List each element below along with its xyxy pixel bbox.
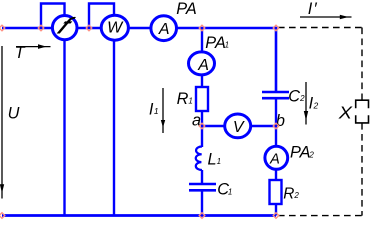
wire: right branch vertical (top corner down to C2) [275,27,278,91]
svg-text:A: A [269,151,280,167]
ammeter PA [151,16,177,41]
junction marker: bottom right branch [273,213,279,219]
junction marker: middle branch tap [199,25,205,31]
junction marker: top right corner [273,25,279,31]
wire: wattmeter down to bottom bus [113,39,115,216]
resistor R1 [196,87,208,111]
svg-text:A: A [197,57,209,74]
arrow T (phase sequence) [16,46,51,48]
wire: R2 to bottom bus [275,204,277,216]
svg-text:R1: R1 [177,90,193,108]
svg-text:PA: PA [176,0,197,18]
dashed boundary: right side [361,28,363,101]
svg-text:PA2: PA2 [290,144,314,162]
svg-text:V: V [233,119,245,136]
wire: voltmeter to node b [251,125,276,127]
wire: R1 to node a [201,111,203,126]
svg-text:I1: I1 [149,100,159,118]
ammeter PA2 [265,146,288,169]
svg-text:A: A [158,21,170,38]
wire: PA1 to R1 [201,75,203,89]
wire: inductor to capacitor C1 [201,170,203,183]
junction marker: node b [273,123,279,129]
svg-text:X: X [338,102,354,122]
svg-text:R2: R2 [283,186,299,203]
wire: top supply bus [2,27,276,30]
wire: C2 down to node b [275,99,277,147]
junction marker: loop2 tap [86,25,92,31]
wire: node a down to inductor [201,126,203,147]
arrow U (voltage) [1,46,3,199]
wire: PA2 to R2 [275,169,277,181]
svg-text:L1: L1 [208,150,222,168]
resistor R2 [270,180,282,204]
load X box [356,100,369,108]
dashed boundary: bottom side [278,215,363,217]
svg-text:W: W [107,20,124,37]
wire: middle branch from top bus junction to ammeter PA1 [201,28,203,52]
junction marker: bottom bus left end [0,213,5,219]
capacitor C1 [189,183,216,186]
wire: loop into wattmeter top [89,4,114,29]
wire: capacitor C1 to bottom bus [201,191,203,216]
voltmeter V [225,114,251,138]
capacitor C2 [262,91,289,94]
wattmeter W [101,15,128,40]
svg-text:U: U [8,104,20,122]
junction marker: node a [199,123,205,129]
junction marker: top bus left end [0,25,5,31]
svg-text:I2: I2 [309,95,319,113]
frequency meter f [52,16,77,40]
dashed boundary: top side [278,27,363,29]
inductor L1 [196,146,202,170]
ammeter PA1 [189,52,215,75]
junction marker: loop1 tap [38,25,44,31]
wire: loop into frequency meter top [41,4,65,29]
wire: frequency meter down to bottom bus [63,39,65,216]
junction marker: bottom middle branch [199,213,205,219]
svg-text:C2: C2 [288,87,305,105]
svg-text:I′: I′ [308,0,318,18]
arrow I' (total current) [300,16,352,18]
wire: node a to voltmeter [202,125,225,127]
arrow I2 (current) [305,82,307,125]
arrow I1 (current) [162,88,164,133]
svg-text:PA1: PA1 [205,34,229,52]
svg-text:C1: C1 [217,181,232,199]
wire: bottom return bus [2,214,276,217]
